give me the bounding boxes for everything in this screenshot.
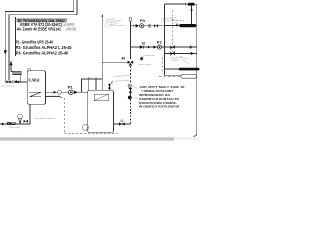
svg-text:zaw. kulowy ze spustem: zaw. kulowy ze spustem <box>34 117 56 120</box>
svg-text:ok. 3% spadku: ok. 3% spadku <box>48 95 61 97</box>
svg-text:C.W.U: C.W.U <box>28 78 40 83</box>
svg-text:10: 10 <box>142 41 146 45</box>
svg-text:40: 40 <box>121 57 125 61</box>
svg-text:40- Zawór 40 ESBE VRG141: 40- Zawór 40 ESBE VRG141 <box>17 26 61 31</box>
svg-text:zaw. antyskaż.: zaw. antyskaż. <box>1 85 14 88</box>
svg-text:W OBIEGU KOTŁOWYM: W OBIEGU KOTŁOWYM <box>139 105 179 109</box>
svg-text:P3- Grundfos ALPHA2 25-40: P3- Grundfos ALPHA2 25-40 <box>16 50 69 55</box>
svg-text:czujnik temp.: czujnik temp. <box>144 54 156 57</box>
svg-text:P2- Grundfos ALPHA2 L 25-40: P2- Grundfos ALPHA2 L 25-40 <box>16 45 72 50</box>
svg-text:ATM 561: ATM 561 <box>66 26 77 31</box>
svg-text:zawór zwrotny: zawór zwrotny <box>139 63 152 66</box>
svg-text:P3: P3 <box>140 18 146 23</box>
svg-text:filtr siatkowy: filtr siatkowy <box>10 126 21 129</box>
svg-text:P2: P2 <box>157 40 163 45</box>
svg-text:P1: P1 <box>68 85 74 90</box>
